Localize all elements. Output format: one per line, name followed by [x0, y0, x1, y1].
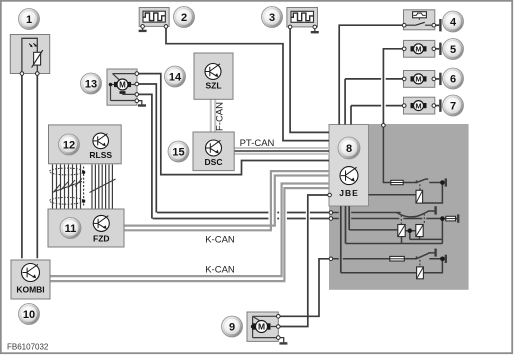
terminal sender3 right [313, 25, 317, 29]
wire DSC to JBE [234, 150, 329, 152]
svg-text:M: M [119, 81, 126, 90]
terminal stub and bar of motor 5 [436, 48, 440, 50]
mechanical link to coil K4 [419, 260, 421, 267]
switch contact S1 [417, 179, 429, 183]
JBE bottom feed wires [341, 206, 349, 273]
wire motor9 pin1 to relay carrier [280, 259, 329, 317]
wire F-CAN line 2 [214, 99, 216, 132]
terminal motor5 left [402, 47, 406, 51]
bundle slashes left [54, 178, 82, 191]
terminal stub and bar of unit 4 [436, 24, 440, 26]
svg-text:DSC: DSC [205, 157, 223, 167]
callout 4 [443, 11, 464, 32]
control unit SZL box [194, 53, 233, 99]
svg-text:9: 9 [229, 322, 235, 334]
terminal JBE left [328, 193, 332, 197]
callout 15 [168, 141, 189, 162]
svg-text:3: 3 [269, 12, 275, 24]
callout 2 [174, 7, 195, 28]
callout 10 [19, 304, 40, 325]
return loop wire group3 [341, 259, 443, 273]
node and terminal bar group1 [442, 182, 444, 184]
control unit RLSS box [49, 125, 122, 164]
relay group 2 input wires [333, 212, 401, 214]
svg-text:M: M [415, 75, 421, 84]
svg-text:K-CAN: K-CAN [205, 235, 235, 246]
terminal unit4 right [432, 23, 436, 27]
svg-text:KOMBI: KOMBI [16, 285, 44, 295]
JBE module box [329, 125, 369, 207]
wire PT-CAN line 2 [234, 153, 329, 155]
terminal sender2 left [141, 25, 145, 29]
wire motor 6 to JBE top [345, 79, 402, 125]
svg-text:RLSS: RLSS [89, 150, 112, 160]
svg-text:K-CAN: K-CAN [205, 265, 235, 276]
fuse F1 [391, 180, 403, 184]
callout 5 [443, 39, 464, 60]
mechanical link to relay coil K1 [419, 184, 421, 190]
callout 9 [222, 316, 243, 337]
callout 14 [165, 66, 186, 87]
junction dots [440, 180, 445, 185]
ground at motor13 [139, 101, 142, 105]
wire motor13 pin1 to JBE [139, 74, 329, 175]
svg-text:2: 2 [181, 12, 187, 24]
terminal motor5 right [432, 47, 436, 51]
terminals relay carrier left [329, 211, 333, 215]
wire K-CAN FZD line 2 [124, 171, 329, 230]
svg-text:7: 7 [450, 101, 456, 113]
control unit FZD box [48, 209, 124, 247]
terminal stub and bar of motor 6 [436, 78, 440, 80]
wire K-CAN FZD line 1 [124, 176, 329, 226]
wire sensor1 left to KOMBI [21, 75, 23, 258]
ground at motor9 [280, 338, 284, 343]
junction box electronics JBE symbol [339, 167, 359, 198]
changeover contact S2 [397, 213, 402, 215]
ground at sender 3 [314, 29, 316, 32]
bundle slash right [90, 179, 116, 193]
ribbon harness right bundle [92, 164, 112, 208]
wire motor 7 to JBE top [351, 106, 402, 125]
terminal motor6 left [402, 77, 406, 81]
callout 7 [443, 95, 464, 116]
relay coil K4 [417, 267, 424, 279]
callout 8 [338, 137, 360, 159]
svg-text:15: 15 [172, 147, 184, 159]
ribbon harness RLSS to FZD left bundle [53, 164, 81, 208]
wire PT-CAN line 1 [234, 147, 329, 149]
svg-text:M: M [415, 101, 421, 110]
relay group 1 feed wire [383, 127, 440, 183]
svg-text:M: M [258, 322, 265, 332]
callout 12 [59, 134, 80, 155]
terminal sender3 left [288, 25, 292, 29]
relay coil K3 [416, 225, 423, 237]
svg-text:M: M [415, 45, 421, 54]
wire K-CAN KOMBI line 2 [50, 188, 329, 281]
terminal motor7 left [402, 104, 406, 108]
wire F-CAN line 1 [210, 99, 212, 132]
motor unit 9 box [247, 312, 278, 341]
wire coil K1 to node [423, 183, 443, 204]
callout 13 [81, 73, 102, 94]
control unit DSC box [193, 132, 234, 171]
switch contact S3 [417, 253, 435, 260]
wire sender 3 to JBE [290, 29, 329, 133]
svg-text:F-CAN: F-CAN [215, 102, 226, 131]
terminals motor9 pins [277, 315, 281, 319]
relay coil K1 [416, 190, 423, 203]
node bar group3 [442, 258, 444, 260]
wire JBE to coil K1 [369, 194, 417, 196]
svg-text:14: 14 [169, 72, 182, 84]
svg-text:12: 12 [63, 140, 75, 152]
svg-text:4: 4 [450, 17, 457, 29]
signal sender 3 box [287, 8, 318, 27]
wire sender 2 to JBE [166, 28, 329, 140]
motor M6 box [404, 71, 435, 88]
terminal sender2 right [164, 25, 168, 29]
svg-text:10: 10 [23, 309, 35, 321]
motor M5 box [404, 40, 435, 57]
callout 3 [262, 7, 283, 28]
terminal sensor1 left [20, 72, 24, 76]
terminal unit4 left [402, 23, 406, 27]
instrument cluster KOMBI box [11, 260, 50, 299]
wire motor13 pin2 to relay carrier [139, 84, 329, 213]
svg-text:PT-CAN: PT-CAN [240, 138, 275, 149]
wire motor 5 to relay carrier terminal [383, 49, 402, 124]
terminal motor6 right [432, 77, 436, 81]
svg-text:SZL: SZL [205, 81, 221, 91]
svg-text:FB6107032: FB6107032 [7, 343, 49, 352]
callout 11 [60, 218, 81, 239]
signal sender 2 box [139, 8, 169, 27]
relay coil K2 [398, 225, 405, 237]
wire motor13 pin3 to relay carrier [139, 94, 329, 218]
fuse F3 [390, 256, 405, 261]
svg-text:5: 5 [450, 44, 456, 56]
motor unit 13 box [107, 69, 137, 105]
terminal stub and bar of motor 7 [436, 105, 440, 107]
svg-text:11: 11 [65, 223, 77, 235]
svg-text:FZD: FZD [93, 233, 110, 243]
coil common wires [346, 219, 443, 244]
terminal motor7 right [432, 104, 436, 108]
connector outline bottom [50, 197, 84, 204]
svg-text:13: 13 [85, 79, 97, 91]
callout 1 [19, 9, 40, 30]
sensor 1 (outside temperature sensor) [10, 35, 49, 74]
motor M7 box [404, 97, 435, 114]
mechanical links to coils K2 K3 [400, 215, 402, 225]
terminal sensor1 right [36, 72, 40, 76]
connector outline top [50, 168, 84, 175]
relay group 3 input wire [333, 258, 441, 260]
dashed wire with nodes [83, 167, 85, 207]
wire sensor1 right to KOMBI [36, 75, 38, 258]
svg-text:1: 1 [26, 14, 32, 26]
terminal relay carrier top [382, 124, 386, 128]
switch unit 4 box [404, 10, 435, 30]
svg-text:6: 6 [450, 74, 456, 86]
node and fuse F2 [442, 218, 445, 220]
wire switch unit 4 to JBE top [339, 25, 402, 124]
callout 6 [443, 68, 464, 89]
wire K-CAN KOMBI line 1 [50, 184, 329, 277]
svg-text:8: 8 [346, 143, 352, 155]
relay carrier dark box [329, 124, 469, 290]
terminals motor13 pins [135, 72, 139, 76]
svg-text:JBE: JBE [339, 188, 359, 198]
wire motor9 pin2 to JBE [280, 195, 328, 327]
ground at sender 2 [142, 28, 144, 30]
